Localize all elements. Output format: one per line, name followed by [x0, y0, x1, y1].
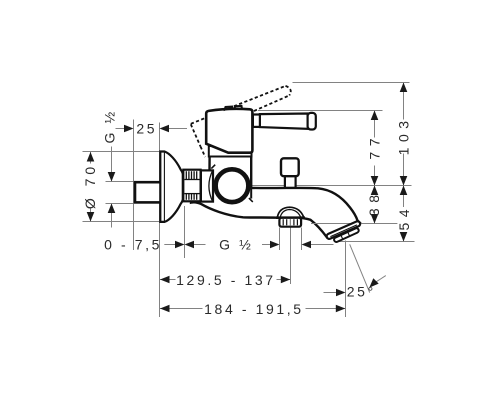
union adapter: [201, 170, 213, 201]
lever end cap: [308, 113, 316, 130]
wire pipe bottom extension: [106, 203, 134, 205]
arrow Ghalf-bottom left: [270, 241, 280, 249]
arrow 0-7.5 left-pointing: [185, 241, 195, 249]
wire spout mouth top extension 38: [311, 223, 410, 225]
svg-text:0 - 7,5: 0 - 7,5: [104, 237, 162, 253]
arrow dia70 top: [87, 152, 95, 162]
wire G half dim line upper: [111, 147, 113, 182]
diverter stem: [285, 170, 296, 188]
wire dim G half bottom leaders: [262, 244, 271, 246]
wire wall face extension line: [133, 120, 135, 251]
arrow 77 bottom: [371, 176, 379, 186]
svg-text:129.5 - 137: 129.5 - 137: [176, 272, 275, 288]
wire top reference line 103: [293, 82, 410, 84]
arrow 103 bottom: [400, 176, 408, 186]
diverter knob: [281, 158, 299, 176]
cartridge pivot bump left: [224, 107, 233, 111]
aerator plate: [333, 227, 359, 242]
wall pipe nipple: [135, 182, 161, 202]
dashed raised lever position: [191, 86, 291, 157]
arrow 54 top: [400, 186, 408, 196]
wire outlet center extension: [290, 227, 292, 284]
arrow 184 right: [336, 305, 346, 313]
arrow 103 top: [400, 83, 408, 93]
arrow 129.5 right: [281, 276, 291, 284]
arrow 129.5 left: [160, 276, 170, 284]
arrow 77 top: [371, 111, 379, 121]
wire 25deg arc leader: [374, 276, 386, 284]
wire outlet left extension: [279, 228, 281, 251]
wire dim 25 right leader: [169, 128, 187, 130]
body joint line: [250, 189, 252, 199]
body and spout silhouette: [191, 156, 360, 237]
svg-text:G ½: G ½: [102, 109, 118, 143]
wire pipe top extension: [106, 181, 134, 183]
ring tick NW: [211, 165, 215, 169]
wire nut face extension line: [184, 206, 186, 258]
wire lever top reference line 77: [258, 110, 383, 112]
lever neck: [253, 115, 260, 127]
svg-text:38: 38: [366, 190, 382, 217]
arrow 38 bottom: [371, 214, 379, 224]
wire dim 25 left leader: [116, 128, 125, 130]
wire dashed lever upper edge left part: [191, 118, 206, 124]
dimension arrowheads: [87, 83, 408, 313]
wire G half dim line lower: [111, 204, 113, 228]
wire outlet right extension: [301, 228, 303, 251]
wire spout tip extension line: [345, 241, 347, 318]
housing skirt: [209, 146, 252, 157]
wire body axis extension: [252, 185, 412, 187]
arrow dim25 right: [160, 125, 170, 133]
wire dim line 77-38: [374, 111, 376, 224]
wire dia70 dim line: [90, 152, 92, 222]
arrow dim25 left: [124, 125, 134, 133]
wire dashed lever lower edge: [254, 95, 289, 111]
valve body ring: [216, 169, 249, 202]
svg-text:103: 103: [396, 115, 412, 155]
arrow Ghalf top: [108, 172, 116, 182]
escutcheon bell: [160, 152, 183, 222]
wire dim 184-191.5 line: [160, 308, 345, 310]
arrow 184 left: [160, 305, 170, 313]
cartridge pivot bump right: [234, 106, 242, 111]
wire escutcheon top extension: [83, 151, 161, 153]
wire dim line 103-54: [403, 83, 405, 242]
faucet drawing: [135, 106, 410, 243]
svg-text:G ½: G ½: [219, 236, 253, 252]
arrow 38 top: [371, 186, 379, 196]
cartridge housing: [206, 109, 252, 153]
wire dim 25deg leader: [324, 292, 337, 294]
svg-text:25: 25: [136, 120, 157, 136]
wire escutcheon face extension line: [159, 123, 161, 318]
svg-text:184 - 191,5: 184 - 191,5: [204, 301, 303, 317]
svg-text:25°: 25°: [347, 284, 376, 300]
arrow Ghalf bottom: [108, 204, 116, 214]
wire dim 129.5-137 line: [160, 279, 290, 281]
wire dashed housing front edge: [191, 124, 201, 146]
svg-text:77: 77: [367, 133, 383, 160]
wire spout tip bottom extension 54: [336, 241, 415, 243]
arrow 54 bottom: [400, 232, 408, 242]
wire dashed lever upper edge: [224, 86, 286, 110]
wire escutcheon bottom extension: [83, 221, 160, 223]
hose outlet connector: [279, 218, 301, 227]
wire dim 0-7.5 leaders: [164, 244, 176, 246]
svg-text:Ø 70: Ø 70: [82, 163, 98, 209]
wire dashed housing bottom: [201, 147, 206, 158]
svg-text:54: 54: [396, 204, 412, 231]
outlet flange line: [276, 216, 305, 219]
union nut: [183, 170, 200, 202]
outlet dome: [277, 207, 304, 217]
wire dashed lever end cap: [286, 86, 291, 96]
wire 25deg angled line: [350, 244, 370, 292]
arrow 0-7.5 right-pointing: [175, 241, 185, 249]
text backgrounds: [83, 120, 411, 316]
thin extension and dimension lines: [83, 83, 415, 318]
spout mouth plate: [326, 220, 361, 239]
arrow dia70 bottom: [87, 212, 95, 222]
arrow 25deg arc: [367, 278, 379, 290]
lever bar: [260, 114, 308, 129]
ring tick SE: [249, 198, 253, 202]
arrow Ghalf-bottom right: [302, 241, 312, 249]
arrow 25deg leader: [336, 289, 346, 297]
